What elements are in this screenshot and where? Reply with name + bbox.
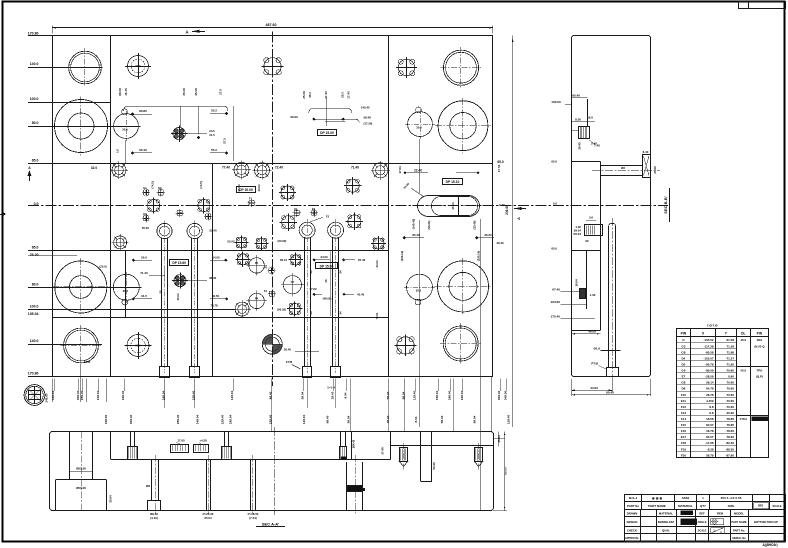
flower hole cluster c10 [346, 179, 359, 192]
extension line x=419.5 [419, 139, 421, 193]
horizontal pocket bottom line y=317.1 [52, 317, 389, 319]
svg-text:3RD: 3RD [758, 504, 763, 508]
vertical line x=111 [110, 36, 112, 377]
ejector pin P3 [299, 222, 315, 238]
svg-text:45.40: 45.40 [357, 293, 365, 297]
svg-text:60.40: 60.40 [139, 148, 147, 152]
extension line x=480.2 [480, 219, 482, 510]
side view channel vertical x=586.5 [586, 251, 588, 309]
svg-text:F13: F13 [681, 411, 687, 415]
hole 30.0 upper-right [408, 112, 433, 137]
main plate top view outline [53, 36, 493, 377]
extension line x=512.6 [512, 36, 514, 427]
svg-text:-80.78: -80.78 [705, 362, 714, 366]
svg-text:16.15: 16.15 [124, 88, 128, 96]
svg-text:SCALE: SCALE [772, 504, 781, 508]
svg-text:(Q.P): (Q.P) [756, 375, 763, 379]
side view outline [572, 36, 651, 377]
svg-text:F20: F20 [681, 453, 687, 457]
svg-text:164.41: 164.41 [352, 439, 356, 448]
svg-text:8.04: 8.04 [344, 392, 348, 398]
svg-text:(230.14): (230.14) [400, 251, 404, 261]
svg-text:65.0: 65.0 [497, 160, 503, 164]
counterbore donut mid-right lower [438, 261, 489, 312]
counterbore donut mid-right upper [438, 101, 488, 151]
flower hole cluster c5 [238, 254, 249, 265]
svg-text:65.00: 65.00 [504, 467, 508, 475]
svg-text:100.00: 100.00 [551, 100, 561, 104]
svg-text:34: 34 [309, 311, 313, 315]
svg-text:-8.28: -8.28 [707, 447, 714, 451]
svg-text:31.5: 31.5 [141, 294, 147, 298]
svg-text:44.00: 44.00 [590, 386, 598, 390]
centerline band tiny cross markers [146, 192, 149, 195]
section screw 1 [400, 448, 408, 462]
svg-text:(74.5): (74.5) [199, 181, 203, 188]
svg-text:F10: F10 [681, 393, 687, 397]
svg-text:73.78: 73.78 [210, 304, 218, 308]
svg-text:(N.20 Q: (N.20 Q [754, 344, 765, 348]
section ejector pin head 1 [130, 432, 132, 446]
svg-text:80.0: 80.0 [32, 121, 39, 125]
svg-text:28.78: 28.78 [706, 393, 714, 397]
left border center tick [0, 214, 5, 216]
svg-text:-70.60: -70.60 [725, 369, 734, 373]
section long pin 1 [151, 460, 153, 501]
side view step line y=250.6 [571, 250, 600, 252]
svg-text:8.8: 8.8 [709, 411, 714, 415]
svg-text:140.45: 140.45 [361, 106, 370, 110]
svg-text:-105.52: -105.52 [703, 338, 714, 342]
svg-text:158.40: 158.40 [192, 390, 196, 400]
svg-text:F18: F18 [681, 441, 687, 445]
oblong slot [418, 196, 480, 217]
top-right revision box [739, 2, 786, 9]
svg-text:36.40: 36.40 [209, 276, 217, 280]
svg-text:D5: D5 [681, 362, 685, 366]
svg-text:PART No: PART No [627, 504, 639, 508]
svg-text:175.40: 175.40 [551, 315, 561, 319]
tapped hole M16 bottom-left [127, 335, 149, 357]
svg-text:98.04: 98.04 [402, 391, 406, 399]
svg-text:PART No.: PART No. [733, 528, 745, 532]
svg-text:71.88: 71.88 [726, 350, 734, 354]
svg-text:34: 34 [339, 311, 343, 315]
svg-text:100.0: 100.0 [30, 304, 39, 308]
svg-text:25.04: 25.04 [204, 516, 212, 520]
svg-text:(17.20): (17.20) [364, 121, 373, 125]
svg-text:158.40: 158.40 [269, 414, 273, 424]
svg-text:P2.04: P2.04 [573, 232, 581, 236]
svg-text:E2: E2 [312, 207, 316, 211]
svg-text:22.40: 22.40 [209, 228, 217, 232]
svg-text:58.40: 58.40 [386, 391, 390, 399]
flower hole cluster c4 [257, 239, 267, 249]
tiny cross marker F4 [272, 294, 275, 297]
svg-text:95.40: 95.40 [572, 93, 580, 97]
svg-text:17.04: 17.04 [497, 164, 501, 172]
svg-text:E1: E1 [294, 207, 298, 211]
flower hole top-center-left [264, 58, 281, 75]
title block [625, 495, 786, 542]
svg-text:E1: E1 [143, 186, 147, 190]
bolt hole row1 a [112, 163, 126, 177]
svg-text:-88.30: -88.30 [725, 447, 734, 451]
svg-text:13.04: 13.04 [257, 184, 261, 191]
svg-text:Ø52.00: Ø52.00 [76, 466, 86, 470]
svg-text:70.60: 70.60 [726, 387, 734, 391]
svg-text:1.30: 1.30 [590, 293, 596, 297]
svg-text:PA: PA [255, 296, 259, 300]
counterbore donut mid-left upper [55, 100, 108, 153]
horizontal pocket top line y=250.6 [28, 250, 389, 252]
left dim line y=309.6 [28, 309, 236, 311]
svg-text:70.60: 70.60 [726, 381, 734, 385]
flower hole cluster c3 [237, 238, 247, 248]
side view vertical x=600.7 [600, 161, 602, 330]
svg-text:25: 25 [159, 290, 163, 294]
svg-text:25.08: 25.08 [302, 91, 306, 99]
svg-text:E9: E9 [158, 186, 162, 190]
guide bush top-right [443, 50, 478, 85]
svg-text:DP 15.10: DP 15.10 [446, 180, 460, 184]
left dim line y=102.2 [28, 102, 111, 104]
svg-text:348.00: 348.00 [51, 390, 55, 400]
svg-text:45.0: 45.0 [308, 92, 312, 98]
svg-text:20.60: 20.60 [653, 166, 657, 174]
svg-text:140.0: 140.0 [30, 339, 39, 343]
svg-text:55.2: 55.2 [211, 109, 217, 113]
svg-text:F4: F4 [264, 289, 268, 293]
section counterbore wide [55, 480, 57, 511]
svg-text:188.40: 188.40 [447, 390, 451, 400]
svg-text:-71.57: -71.57 [725, 356, 734, 360]
svg-text:65.0: 65.0 [32, 159, 39, 163]
svg-text:M16: M16 [135, 64, 141, 68]
svg-text:E17: E17 [681, 435, 687, 439]
svg-text:308.40: 308.40 [497, 390, 501, 400]
svg-text:14.00: 14.00 [212, 255, 220, 259]
svg-text:250 X +10 X 65: 250 X +10 X 65 [721, 496, 742, 500]
tiny cross marker F6 [271, 270, 274, 273]
side view center pin [608, 226, 610, 367]
svg-text:170.80: 170.80 [28, 372, 39, 376]
left tick y=35.6 [28, 35, 52, 37]
pocket area dimension details [132, 259, 135, 262]
flower hole cluster c6 [291, 255, 301, 265]
svg-text:-117.28: -117.28 [704, 344, 714, 348]
svg-text:MODEL: MODEL [734, 512, 744, 516]
left dim line y=255.9 [28, 255, 77, 257]
side view 49.09 dim [571, 333, 600, 335]
svg-text:84.57: 84.57 [706, 423, 714, 427]
side view top block [579, 127, 590, 139]
svg-text:58.04: 58.04 [347, 415, 351, 423]
svg-text:32.0: 32.0 [91, 166, 97, 170]
svg-text:A: A [185, 30, 188, 35]
bolt hole row1 b [234, 162, 249, 177]
svg-text:-17.68: -17.68 [705, 441, 714, 445]
svg-text:30.40: 30.40 [284, 347, 292, 351]
svg-text:REM: REM [717, 512, 724, 516]
svg-text:15.04: 15.04 [497, 435, 501, 443]
section arrow A top [192, 30, 200, 33]
svg-text:34: 34 [339, 270, 343, 274]
section A-A outline [50, 432, 494, 511]
svg-text:21.5: 21.5 [209, 133, 215, 137]
svg-text:128.04: 128.04 [230, 390, 234, 400]
section plate bottom right [391, 445, 494, 447]
svg-text:236.60: 236.60 [505, 205, 509, 215]
svg-text:QTY: QTY [700, 504, 706, 508]
svg-text:228.04: 228.04 [460, 390, 464, 400]
flower hole top-center-right [398, 59, 414, 75]
hole 30.0 upper-left [114, 114, 139, 139]
svg-text:-105.57: -105.57 [703, 356, 714, 360]
svg-text:M16: M16 [135, 344, 141, 348]
svg-text:228.40: 228.40 [221, 414, 225, 424]
svg-text:-28.58: -28.58 [705, 375, 714, 379]
svg-text:DESIGN: DESIGN [627, 520, 638, 524]
svg-text:PA: PA [255, 261, 259, 265]
section long pin 2 [206, 460, 208, 511]
svg-text:80.80: 80.80 [139, 109, 147, 113]
svg-text:G3: G3 [681, 344, 685, 348]
svg-text:258.40: 258.40 [176, 414, 180, 424]
svg-text:348.00: 348.00 [503, 390, 507, 400]
svg-text:56.01: 56.01 [280, 258, 287, 262]
svg-text:SERIAL No: SERIAL No [732, 536, 746, 540]
svg-text:45.0: 45.0 [740, 369, 746, 373]
svg-text:QUAL: QUAL [662, 528, 670, 532]
svg-text:248.04: 248.04 [196, 414, 200, 424]
svg-text:F7/8: F7/8 [84, 360, 90, 364]
section counterbore narrow [69, 432, 71, 480]
svg-text:18.78: 18.78 [706, 429, 714, 433]
svg-text:PT.Ø: PT.Ø [591, 362, 598, 366]
svg-text:Ø1.6: Ø1.6 [593, 347, 600, 351]
svg-text:17.40: 17.40 [347, 91, 351, 99]
svg-text:⊕ ⊕ ⊕: ⊕ ⊕ ⊕ [652, 496, 663, 500]
svg-text:58.04: 58.04 [301, 391, 305, 399]
svg-text:30.00: 30.00 [290, 115, 298, 119]
svg-text:98.04: 98.04 [472, 415, 476, 423]
svg-text:APPROVAL: APPROVAL [625, 536, 640, 540]
svg-text:-70.60: -70.60 [725, 405, 734, 409]
svg-text:55.02: 55.02 [142, 226, 150, 230]
section block verticals [351, 432, 353, 460]
svg-text:-78.60: -78.60 [725, 435, 734, 439]
bolt hole row2 a [235, 302, 249, 316]
crosshair hole left a [249, 258, 264, 273]
svg-text:103.60: 103.60 [551, 300, 561, 304]
svg-text:-78.60: -78.60 [725, 429, 734, 433]
svg-text:(230.14): (230.14) [477, 251, 481, 261]
diamond dims above pocket right [403, 236, 406, 239]
svg-text:-71.85: -71.85 [725, 362, 734, 366]
svg-text:55.2: 55.2 [211, 148, 217, 152]
svg-text:G8: G8 [681, 381, 685, 385]
vertical centerline x=272.3 [272, 32, 274, 387]
svg-text:(7.04): (7.04) [249, 516, 257, 520]
ejector pin P4 [328, 222, 344, 238]
svg-text:F7/8: F7/8 [286, 360, 292, 364]
label box DP 15.00 pocket [316, 263, 338, 269]
svg-text:(23.02): (23.02) [278, 239, 287, 243]
left dim line y=287.7 [28, 287, 141, 289]
svg-text:ANGLE: ANGLE [697, 520, 706, 524]
svg-text:F12: F12 [681, 405, 687, 409]
crosshair hole left b [249, 293, 264, 308]
left dim line y=67.5 [28, 67, 102, 69]
svg-text:37.40: 37.40 [381, 447, 385, 455]
section ejector pin head 3 [340, 432, 342, 446]
svg-text:+4.28: +4.28 [199, 439, 207, 443]
svg-text:58.48: 58.48 [364, 115, 372, 119]
left dim line y=126.5 [28, 126, 140, 128]
svg-text:28.40: 28.40 [331, 391, 335, 399]
guide bush bottom-left [64, 328, 99, 363]
section long pin 3 [250, 460, 252, 511]
svg-text:228.40: 228.40 [121, 390, 125, 400]
svg-text:30.04: 30.04 [109, 495, 113, 503]
svg-text:MATERIAL: MATERIAL [678, 504, 693, 508]
svg-text:308.40: 308.40 [129, 414, 133, 424]
extension line x=491.2 [491, 377, 493, 432]
svg-text:M-S-J: M-S-J [629, 496, 637, 500]
svg-text:CP: CP [291, 280, 295, 284]
svg-text:-70.60: -70.60 [725, 399, 734, 403]
svg-text:MATERIAL: MATERIAL [659, 512, 674, 516]
hole 30.0 lower-right [407, 274, 433, 300]
svg-text:487.60: 487.60 [266, 23, 277, 27]
svg-text:71.40: 71.40 [351, 166, 359, 170]
svg-text:49.09: 49.09 [588, 330, 596, 334]
svg-text:BOTTOM.TOP.CAP: BOTTOM.TOP.CAP [754, 520, 778, 524]
flower hole cluster c1 [282, 216, 295, 229]
svg-text:46.40: 46.40 [496, 241, 504, 245]
svg-text:30.0: 30.0 [416, 289, 422, 293]
side view protrusion [601, 165, 642, 167]
svg-text:8.04: 8.04 [414, 416, 418, 422]
double hole bottom-center [262, 334, 282, 354]
svg-text:4Rd: 4Rd [757, 338, 763, 342]
svg-text:71.38: 71.38 [726, 344, 734, 348]
svg-text:PIN: PIN [757, 331, 763, 335]
section screw 2 [475, 448, 483, 462]
svg-text:DP 15.00: DP 15.00 [320, 264, 334, 268]
section right dims [493, 438, 505, 440]
svg-text:34: 34 [309, 270, 313, 274]
svg-text:68.08: 68.08 [118, 88, 122, 96]
svg-text:28.40: 28.40 [386, 415, 390, 423]
horizontal feature line y=163.7 [28, 163, 493, 165]
svg-text:8.8: 8.8 [709, 405, 714, 409]
svg-text:DP 15.00: DP 15.00 [320, 131, 334, 135]
svg-text:-45.60: -45.60 [725, 411, 734, 415]
svg-text:27.5: 27.5 [219, 89, 223, 95]
svg-text:CHECK: CHECK [627, 528, 637, 532]
tapped hole M16 top-left [128, 56, 149, 77]
svg-text:65.0: 65.0 [32, 245, 39, 249]
svg-text:84.57: 84.57 [706, 435, 714, 439]
extension lines to section view [271, 379, 273, 432]
svg-text:65.0: 65.0 [551, 159, 557, 163]
left dim line y=344.3 [28, 344, 102, 346]
side view vertical x=587.5 [587, 99, 589, 126]
svg-text:50.40: 50.40 [432, 462, 436, 470]
section plate bottom left [111, 459, 391, 461]
svg-text:DL: DL [741, 331, 745, 335]
svg-text:DP 15.60: DP 15.60 [172, 261, 186, 265]
svg-text:-82.30: -82.30 [725, 441, 734, 445]
svg-text:22.40: 22.40 [414, 168, 422, 172]
svg-text:27.40: 27.40 [324, 91, 328, 99]
svg-text:45.08: 45.08 [182, 88, 186, 96]
flower hole centerline b [198, 200, 210, 212]
flower hole bottom-center-right [397, 337, 414, 354]
svg-text:62: 62 [585, 239, 589, 243]
svg-text:98.40: 98.40 [325, 415, 329, 423]
counterbore donut mid-left lower [55, 261, 107, 313]
svg-text:1=1-4: 1=1-4 [327, 386, 335, 390]
svg-text:19.04: 19.04 [575, 279, 579, 287]
svg-text:98.40: 98.40 [269, 391, 273, 399]
svg-text:(90.21): (90.21) [427, 221, 431, 230]
svg-text:188.04: 188.04 [229, 414, 233, 424]
svg-text:D4: D4 [681, 356, 685, 360]
svg-text:REF: REF [699, 512, 705, 516]
svg-text:E7: E7 [682, 375, 686, 379]
svg-text:34.00: 34.00 [320, 255, 328, 259]
svg-text:188.04: 188.04 [162, 390, 166, 400]
svg-text:77.40: 77.40 [222, 166, 230, 170]
guide bush top-left [69, 51, 102, 84]
svg-text:(23.40): (23.40) [472, 221, 476, 230]
svg-text:170.80: 170.80 [28, 31, 39, 35]
svg-text:128.04: 128.04 [302, 414, 306, 424]
svg-text:F14: F14 [681, 417, 687, 421]
side view mid block [585, 225, 603, 236]
svg-text:76.20: 76.20 [30, 253, 39, 257]
section spring channel [346, 462, 348, 510]
svg-text:85.40: 85.40 [412, 233, 420, 237]
svg-text:DRAWN: DRAWN [627, 512, 638, 516]
svg-text:F19: F19 [681, 447, 687, 451]
svg-text:45.0: 45.0 [740, 338, 746, 342]
label box DP 15.10 right [443, 179, 463, 185]
svg-text:4.459: 4.459 [706, 399, 714, 403]
svg-text:246.60: 246.60 [45, 393, 49, 403]
svg-text:SEC B-B': SEC B-B' [663, 196, 668, 213]
svg-text:45.08: 45.08 [194, 88, 198, 96]
svg-text:-70.60: -70.60 [725, 393, 734, 397]
svg-text:F2: F2 [326, 215, 330, 219]
svg-text:34.04: 34.04 [375, 260, 379, 267]
svg-text:128.40: 128.40 [412, 390, 416, 400]
svg-text:30.0: 30.0 [123, 289, 129, 293]
vertical line x=389 [388, 36, 390, 377]
flower hole centerline a [148, 200, 160, 212]
svg-text:DP 20.00: DP 20.00 [239, 188, 253, 192]
svg-text:TPG: TPG [756, 369, 763, 373]
svg-text:105.04: 105.04 [28, 312, 39, 316]
svg-text:17.00: 17.00 [177, 439, 185, 443]
svg-text:4T8.0: 4T8.0 [740, 417, 748, 421]
top overall dimension line 487.60 [52, 27, 493, 29]
svg-text:55.0: 55.0 [141, 255, 147, 259]
svg-text:SIZE: SIZE [728, 504, 735, 508]
